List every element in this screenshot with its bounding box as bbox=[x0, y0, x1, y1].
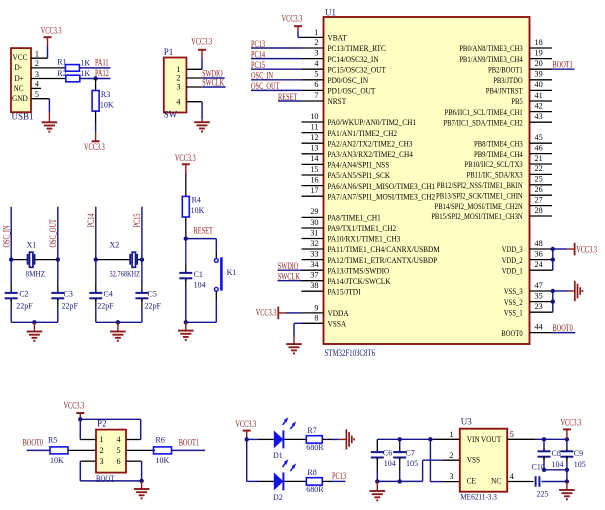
junction bbox=[565, 437, 569, 441]
connector USB1 bbox=[11, 48, 31, 112]
svg-text:VSS: VSS bbox=[467, 455, 481, 464]
svg-text:BOOT0: BOOT0 bbox=[23, 438, 44, 448]
svg-text:18: 18 bbox=[535, 38, 543, 47]
U1 pin 20 PB2/BOOT1 / node BOOT1 bbox=[530, 68, 553, 70]
svg-text:D1: D1 bbox=[273, 451, 283, 460]
svg-text:R5: R5 bbox=[48, 435, 57, 444]
svg-text:R8: R8 bbox=[307, 468, 316, 477]
svg-text:PA3/AN3/RX2/TIME2_CH4: PA3/AN3/RX2/TIME2_CH4 bbox=[328, 150, 414, 159]
svg-text:U3: U3 bbox=[461, 417, 472, 427]
svg-text:VCC: VCC bbox=[13, 53, 28, 62]
svg-text:PB7/IIC1_SDA/TIME4_CH2: PB7/IIC1_SDA/TIME4_CH2 bbox=[443, 118, 522, 127]
junction bbox=[428, 437, 432, 441]
svg-text:PC13: PC13 bbox=[332, 471, 346, 481]
P2 pin 2 wire bbox=[68, 449, 96, 451]
resistor R3 bbox=[95, 79, 97, 91]
svg-text:PB5: PB5 bbox=[511, 97, 522, 106]
ground (regulator input) bbox=[376, 481, 378, 490]
svg-text:23: 23 bbox=[535, 302, 543, 311]
svg-text:VBAT: VBAT bbox=[328, 34, 347, 43]
junction bbox=[398, 437, 402, 441]
wire (VIN-CE tie) bbox=[429, 439, 431, 481]
svg-text:42: 42 bbox=[535, 101, 543, 110]
svg-text:PA6/AN6/SPI1_MISO/TIME3_CH1: PA6/AN6/SPI1_MISO/TIME3_CH1 bbox=[328, 182, 436, 191]
LED D2 bbox=[274, 472, 284, 490]
svg-text:13: 13 bbox=[310, 144, 318, 153]
ground (reset) bbox=[185, 322, 187, 330]
svg-text:OSC_IN: OSC_IN bbox=[1, 225, 11, 247]
svg-text:14: 14 bbox=[310, 154, 318, 163]
U1 pin 22 PB11/IIC_SDA/RX3 bbox=[530, 173, 553, 175]
U1 pin 11 PA1/AN1/TIME2_CH2 bbox=[302, 132, 324, 134]
svg-text:VSS_2: VSS_2 bbox=[504, 298, 523, 307]
wire bbox=[201, 59, 203, 70]
svg-text:22pF: 22pF bbox=[97, 302, 114, 311]
svg-text:1: 1 bbox=[176, 65, 180, 74]
svg-text:VDD_1: VDD_1 bbox=[502, 266, 523, 275]
ground (regulator output) bbox=[566, 482, 568, 490]
svg-text:1: 1 bbox=[449, 430, 453, 439]
svg-text:PB1/AN9/TIME3_CH4: PB1/AN9/TIME3_CH4 bbox=[459, 55, 523, 64]
svg-text:16: 16 bbox=[310, 175, 318, 184]
svg-text:8: 8 bbox=[314, 314, 318, 323]
svg-text:R3: R3 bbox=[101, 90, 110, 99]
svg-text:RESET: RESET bbox=[194, 225, 214, 235]
svg-text:PB4/JNTRST: PB4/JNTRST bbox=[486, 87, 523, 96]
svg-text:40: 40 bbox=[535, 80, 543, 89]
svg-text:5: 5 bbox=[510, 430, 514, 439]
svg-text:43: 43 bbox=[535, 112, 543, 121]
junction bbox=[245, 437, 249, 441]
svg-text:12: 12 bbox=[310, 133, 318, 142]
svg-text:C1: C1 bbox=[194, 270, 203, 279]
ground (USB) bbox=[42, 121, 58, 123]
U1 pin 39 PB3/JTDO bbox=[530, 79, 553, 81]
svg-text:1K: 1K bbox=[80, 69, 90, 78]
svg-text:VSS_3: VSS_3 bbox=[504, 287, 523, 296]
svg-text:R6: R6 bbox=[156, 435, 165, 444]
capacitor C3 bbox=[57, 283, 59, 293]
svg-text:PA14/JTCK/SWCLK: PA14/JTCK/SWCLK bbox=[328, 277, 391, 286]
junction bbox=[184, 236, 188, 240]
svg-text:PB9/TIME4_CH4: PB9/TIME4_CH4 bbox=[474, 150, 523, 159]
wire bbox=[285, 438, 307, 440]
svg-text:NC: NC bbox=[14, 84, 25, 93]
wire (VOUT) bbox=[507, 438, 535, 440]
svg-text:PC15: PC15 bbox=[132, 213, 142, 227]
svg-text:22pF: 22pF bbox=[16, 302, 33, 311]
svg-text:C7: C7 bbox=[406, 449, 415, 458]
U1 pin 30 PA9/TX1/TIME1_CH2 bbox=[302, 227, 324, 229]
svg-text:11: 11 bbox=[311, 122, 319, 131]
U1 pin 13 PA3/AN3/RX2/TIME2_CH4 bbox=[302, 153, 324, 155]
svg-text:2: 2 bbox=[314, 38, 318, 47]
svg-text:5: 5 bbox=[35, 90, 39, 99]
svg-text:BOOT1: BOOT1 bbox=[553, 59, 573, 69]
capacitor C1 bbox=[185, 239, 187, 265]
svg-text:PB10/IIC2_SCL/TX3: PB10/IIC2_SCL/TX3 bbox=[464, 160, 522, 169]
svg-text:4: 4 bbox=[314, 59, 318, 68]
wire bbox=[201, 102, 203, 120]
svg-text:46: 46 bbox=[535, 143, 543, 152]
svg-text:3: 3 bbox=[449, 472, 453, 481]
svg-text:D+: D+ bbox=[15, 74, 25, 83]
svg-text:PA4/AN4/SPI1_NSS: PA4/AN4/SPI1_NSS bbox=[328, 161, 390, 170]
P2 pin 5 wire bbox=[126, 449, 155, 451]
svg-text:STM32F103C8T6: STM32F103C8T6 bbox=[325, 348, 376, 358]
svg-text:35: 35 bbox=[535, 291, 543, 300]
svg-text:17: 17 bbox=[310, 186, 318, 195]
wire (VIN rail) bbox=[377, 438, 434, 440]
svg-text:36: 36 bbox=[535, 249, 543, 258]
svg-text:K1: K1 bbox=[227, 268, 237, 277]
svg-text:USB1: USB1 bbox=[12, 112, 34, 122]
svg-text:6: 6 bbox=[117, 457, 121, 466]
svg-text:GND: GND bbox=[12, 94, 28, 103]
svg-text:BOOT0: BOOT0 bbox=[553, 323, 574, 333]
svg-text:PB15/SPI2_MOSI/TIME1_CH3N: PB15/SPI2_MOSI/TIME1_CH3N bbox=[431, 212, 523, 221]
svg-text:3: 3 bbox=[314, 48, 318, 57]
svg-text:PA1/AN1/TIME2_CH2: PA1/AN1/TIME2_CH2 bbox=[328, 129, 398, 138]
svg-text:OSC_OUT: OSC_OUT bbox=[48, 219, 58, 248]
svg-text:4: 4 bbox=[176, 97, 180, 106]
svg-text:X2: X2 bbox=[110, 240, 120, 249]
svg-text:105: 105 bbox=[574, 460, 586, 469]
svg-text:1: 1 bbox=[100, 435, 104, 444]
svg-text:C2: C2 bbox=[19, 289, 28, 298]
U1 pin 46 PB9/TIME4_CH4 bbox=[530, 153, 553, 155]
svg-text:4: 4 bbox=[510, 472, 514, 481]
svg-text:NC: NC bbox=[491, 476, 502, 485]
svg-text:PB8/TIME4_CH3: PB8/TIME4_CH3 bbox=[474, 139, 523, 148]
capacitor C2 bbox=[10, 283, 12, 293]
svg-text:2: 2 bbox=[100, 446, 104, 455]
svg-text:30: 30 bbox=[310, 218, 318, 227]
svg-text:680R: 680R bbox=[306, 443, 324, 452]
svg-text:VOUT: VOUT bbox=[481, 435, 501, 444]
junction bbox=[542, 468, 546, 472]
svg-text:VCC3.3: VCC3.3 bbox=[256, 308, 277, 318]
svg-text:PA8/TIME1_CH1: PA8/TIME1_CH1 bbox=[328, 214, 381, 223]
svg-text:PD0/OSC_IN: PD0/OSC_IN bbox=[328, 76, 369, 85]
svg-text:10K: 10K bbox=[191, 206, 205, 215]
svg-text:38: 38 bbox=[310, 281, 318, 290]
svg-text:VCC3.3: VCC3.3 bbox=[175, 153, 196, 163]
svg-text:R7: R7 bbox=[307, 426, 316, 435]
svg-text:PA12: PA12 bbox=[95, 68, 109, 78]
U1 pin 42 PB6/IIC1_SCL/TIME4_CH1 bbox=[530, 111, 553, 113]
svg-text:PA15/JTDI: PA15/JTDI bbox=[328, 287, 361, 296]
U1 pin 25 PB12/SPI2_NSS/TIME1_BKIN bbox=[530, 184, 553, 186]
svg-text:P2: P2 bbox=[97, 418, 107, 428]
U1 VSS pins 47/35/23 + ground (sideways) bbox=[530, 290, 553, 292]
svg-text:33: 33 bbox=[310, 249, 318, 258]
P2 pin 3 bbox=[80, 460, 96, 462]
svg-text:19: 19 bbox=[535, 48, 543, 57]
wire bbox=[322, 480, 331, 482]
svg-text:C6: C6 bbox=[383, 449, 392, 458]
U1 pin 45 PB8/TIME4_CH3 bbox=[530, 142, 553, 144]
P2 pin 4 bbox=[126, 439, 141, 441]
ground (D1, sideways) bbox=[345, 429, 347, 449]
svg-text:PA9/TX1/TIME1_CH2: PA9/TX1/TIME1_CH2 bbox=[328, 224, 397, 233]
svg-text:VIN: VIN bbox=[467, 435, 480, 444]
svg-text:2: 2 bbox=[176, 74, 180, 83]
svg-text:10: 10 bbox=[310, 112, 318, 121]
svg-text:VCC3.3: VCC3.3 bbox=[576, 244, 597, 254]
U1 VDD pins 48/36/24 + power VCC3.3 bbox=[530, 248, 553, 250]
svg-text:32: 32 bbox=[310, 239, 318, 248]
U1 pin 18 PB0/AN8/TIME3_CH3 bbox=[530, 47, 553, 49]
svg-text:NRST: NRST bbox=[328, 97, 347, 106]
capacitor C5 bbox=[141, 283, 143, 293]
svg-text:3: 3 bbox=[100, 457, 104, 466]
junction bbox=[139, 479, 143, 483]
wire bbox=[185, 288, 187, 322]
junction bbox=[56, 257, 60, 261]
svg-text:VCC3.3: VCC3.3 bbox=[282, 14, 303, 24]
junction bbox=[184, 320, 188, 324]
capacitor C8 bbox=[543, 439, 545, 446]
svg-text:41: 41 bbox=[535, 91, 543, 100]
wire bbox=[247, 480, 258, 482]
junction bbox=[78, 417, 82, 421]
junction bbox=[94, 257, 98, 261]
svg-text:PA13/JTMS/SWDIO: PA13/JTMS/SWDIO bbox=[328, 266, 390, 275]
svg-text:PB2/BOOT1: PB2/BOOT1 bbox=[488, 65, 523, 74]
svg-text:VDDA: VDDA bbox=[328, 309, 349, 318]
svg-text:3: 3 bbox=[176, 83, 180, 92]
svg-text:27: 27 bbox=[535, 195, 543, 204]
wire bbox=[322, 438, 331, 440]
power symbol VCC3.3 (pull-up, bar down) bbox=[95, 132, 97, 142]
ground (crystal 2) bbox=[117, 322, 119, 331]
svg-text:PB11/IIC_SDA/RX3: PB11/IIC_SDA/RX3 bbox=[467, 171, 523, 180]
svg-text:VCC3.3: VCC3.3 bbox=[235, 419, 256, 429]
capacitor C9 bbox=[566, 439, 568, 446]
U1 pin 21 PB10/IIC2_SCL/TX3 bbox=[530, 163, 553, 165]
svg-text:BOOT1: BOOT1 bbox=[179, 438, 199, 448]
svg-text:D-: D- bbox=[15, 63, 23, 72]
svg-text:45: 45 bbox=[535, 133, 543, 142]
svg-text:VCC3.3: VCC3.3 bbox=[64, 401, 85, 411]
wire bbox=[566, 470, 568, 482]
ground (crystal 1) bbox=[33, 322, 35, 331]
svg-text:C4: C4 bbox=[104, 289, 113, 298]
svg-text:2: 2 bbox=[449, 451, 453, 460]
svg-text:VSSA: VSSA bbox=[328, 320, 347, 329]
wire (VSS jog) bbox=[423, 459, 443, 461]
svg-text:PC15/OSC32_OUT: PC15/OSC32_OUT bbox=[328, 65, 386, 74]
wire (bottom rail) bbox=[79, 461, 81, 481]
svg-text:22: 22 bbox=[535, 164, 543, 173]
wire bbox=[10, 308, 12, 322]
pin 4 bbox=[186, 101, 202, 103]
svg-text:VCC3.3: VCC3.3 bbox=[191, 36, 212, 46]
svg-text:104: 104 bbox=[194, 281, 206, 290]
U1 pin 19 PB1/AN9/TIME3_CH4 bbox=[530, 58, 553, 60]
wire (top rail) bbox=[80, 418, 140, 420]
ground (P2) bbox=[141, 481, 143, 489]
svg-text:225: 225 bbox=[537, 489, 549, 498]
svg-text:PC13/TIMER_RTC: PC13/TIMER_RTC bbox=[328, 44, 387, 53]
wire bbox=[95, 308, 97, 322]
svg-text:X1: X1 bbox=[27, 240, 37, 249]
svg-text:PA2/AN2/TX2/TIME2_CH3: PA2/AN2/TX2/TIME2_CH3 bbox=[328, 139, 413, 148]
svg-text:20: 20 bbox=[535, 59, 543, 68]
pin 2 / node SWDIO bbox=[186, 77, 202, 79]
wire bbox=[247, 438, 258, 440]
svg-text:5: 5 bbox=[314, 70, 318, 79]
junction bbox=[565, 479, 569, 483]
svg-text:44: 44 bbox=[535, 322, 543, 331]
junction bbox=[375, 479, 379, 483]
svg-text:R4: R4 bbox=[192, 196, 201, 205]
svg-text:PC14: PC14 bbox=[86, 213, 96, 227]
svg-text:ME6211-3.3: ME6211-3.3 bbox=[460, 493, 497, 502]
wire bbox=[47, 47, 49, 59]
U1 pin 14 PA4/AN4/SPI1_NSS bbox=[302, 163, 324, 165]
svg-text:9: 9 bbox=[314, 303, 318, 312]
U1 pin 29 PA8/TIME1_CH1 bbox=[302, 216, 324, 218]
junction bbox=[140, 257, 144, 261]
svg-text:37: 37 bbox=[310, 271, 318, 280]
svg-text:29: 29 bbox=[310, 207, 318, 216]
svg-text:47: 47 bbox=[535, 281, 543, 290]
wire bbox=[31, 98, 49, 100]
svg-text:PD1/OSC_OUT: PD1/OSC_OUT bbox=[328, 87, 376, 96]
svg-text:PB12/SPI2_NSS/TIME1_BKIN: PB12/SPI2_NSS/TIME1_BKIN bbox=[437, 181, 523, 190]
svg-text:VDD_3: VDD_3 bbox=[502, 245, 523, 254]
svg-text:104: 104 bbox=[552, 460, 564, 469]
junction bbox=[9, 257, 13, 261]
svg-text:10K: 10K bbox=[50, 456, 64, 465]
svg-text:5: 5 bbox=[117, 446, 121, 455]
svg-text:CE: CE bbox=[467, 476, 476, 485]
wire bbox=[95, 111, 97, 124]
U1 pin 31 PA10/RX1/TIME1_CH3 bbox=[302, 238, 324, 240]
U1 pin 12 PA2/AN2/TX2/TIME2_CH3 bbox=[302, 142, 324, 144]
svg-text:VDD_2: VDD_2 bbox=[502, 256, 523, 265]
capacitor C6 bbox=[376, 439, 378, 452]
svg-text:22pF: 22pF bbox=[145, 302, 162, 311]
U1 pin 10 PA0/WKUP/AN0/TIM2_CH1 bbox=[302, 121, 324, 123]
U1 pin 17 PA7/AN7/SPI1_MOSI/TIME3_CH2 bbox=[302, 195, 324, 197]
svg-text:C8: C8 bbox=[552, 449, 561, 458]
svg-text:VSS_1: VSS_1 bbox=[504, 308, 523, 317]
junction bbox=[565, 468, 569, 472]
svg-text:39: 39 bbox=[535, 70, 543, 79]
P2 pin 6 bbox=[126, 460, 142, 462]
svg-text:105: 105 bbox=[406, 459, 418, 468]
U1 pin 16 PA6/AN6/SPI1_MISO/TIME3_CH1 bbox=[302, 185, 324, 187]
svg-text:SW: SW bbox=[164, 109, 178, 119]
svg-text:6: 6 bbox=[314, 80, 318, 89]
svg-text:1K: 1K bbox=[80, 58, 90, 67]
svg-text:PA10/RX1/TIME1_CH3: PA10/RX1/TIME1_CH3 bbox=[328, 235, 401, 244]
LED D1 bbox=[274, 430, 284, 448]
pushbutton K1 bbox=[214, 259, 218, 263]
svg-text:C10: C10 bbox=[532, 463, 545, 472]
U1 pin 41 PB5 bbox=[530, 100, 553, 102]
svg-text:PB13/SPI2_SCK/TIME1_CHIN: PB13/SPI2_SCK/TIME1_CHIN bbox=[436, 191, 523, 200]
capacitor C4 bbox=[95, 283, 97, 293]
U1 pin 28 PB15/SPI2_MOSI/TIME1_CH3N bbox=[530, 215, 553, 217]
svg-text:15: 15 bbox=[310, 165, 318, 174]
U1 pin 26 PB13/SPI2_SCK/TIME1_CHIN bbox=[530, 194, 553, 196]
wire bbox=[186, 238, 217, 240]
svg-text:680R: 680R bbox=[306, 485, 324, 494]
U1 pin 33 PA12/TIME1_ETR/CANTX/USBDP bbox=[302, 259, 324, 261]
svg-text:4: 4 bbox=[35, 80, 39, 89]
U1 pin 15 PA5/AN5/SPI1_SCK bbox=[302, 174, 324, 176]
wire bbox=[246, 439, 248, 481]
svg-text:34: 34 bbox=[310, 260, 318, 269]
svg-text:PA7/AN7/SPI1_MOSI/TIME3_CH2: PA7/AN7/SPI1_MOSI/TIME3_CH2 bbox=[328, 192, 436, 201]
U1 pin 43 PB7/IIC1_SDA/TIME4_CH2 bbox=[530, 121, 553, 123]
svg-text:22pF: 22pF bbox=[62, 302, 79, 311]
wire bbox=[215, 291, 217, 300]
svg-text:2: 2 bbox=[35, 59, 39, 68]
P2 pin 1 bbox=[80, 439, 96, 441]
wire bbox=[285, 480, 307, 482]
wire bbox=[544, 469, 567, 471]
U1 pin 38 PA15/JTDI bbox=[302, 290, 324, 292]
wire bbox=[185, 174, 187, 196]
resistor R4 bbox=[182, 196, 189, 217]
svg-text:3: 3 bbox=[35, 70, 39, 79]
wire bbox=[185, 217, 187, 239]
svg-text:PB0/AN8/TIME3_CH3: PB0/AN8/TIME3_CH3 bbox=[459, 44, 523, 53]
wire (gnd rail) bbox=[377, 480, 422, 482]
svg-text:PA11/TIME1_CH4/CANRX/USBDM: PA11/TIME1_CH4/CANRX/USBDM bbox=[328, 245, 441, 254]
wire (bottom rail) bbox=[11, 321, 58, 323]
svg-text:VCC3.3: VCC3.3 bbox=[41, 26, 62, 36]
svg-text:D2: D2 bbox=[273, 493, 283, 502]
svg-text:10K: 10K bbox=[100, 101, 114, 110]
svg-text:32.768KHZ: 32.768KHZ bbox=[110, 270, 141, 279]
wire bbox=[141, 308, 143, 322]
svg-text:8MHZ: 8MHZ bbox=[26, 270, 46, 279]
wire (bottom rail) bbox=[96, 321, 142, 323]
svg-text:25: 25 bbox=[535, 175, 543, 184]
svg-text:48: 48 bbox=[535, 239, 543, 248]
svg-text:P1: P1 bbox=[164, 47, 174, 57]
junction bbox=[93, 76, 97, 80]
svg-text:C5: C5 bbox=[148, 289, 157, 298]
svg-text:1: 1 bbox=[314, 28, 318, 37]
U1 pin 40 PB4/JNTRST bbox=[530, 89, 553, 91]
junction bbox=[398, 479, 402, 483]
svg-text:U1: U1 bbox=[325, 8, 336, 18]
svg-text:VCC3.3: VCC3.3 bbox=[561, 418, 582, 428]
svg-text:PA11: PA11 bbox=[95, 57, 109, 67]
U1 pin 32 PA11/TIME1_CH4/CANRX/USBDM bbox=[302, 248, 324, 250]
svg-text:VCC3.3: VCC3.3 bbox=[84, 142, 105, 152]
wire (bottom) bbox=[186, 321, 217, 323]
junction bbox=[32, 320, 36, 324]
svg-text:21: 21 bbox=[535, 154, 543, 163]
svg-text:BOOT0: BOOT0 bbox=[501, 329, 522, 338]
U1 pin 8 VSSA + ground bbox=[302, 322, 324, 324]
junction bbox=[116, 320, 120, 324]
svg-text:1: 1 bbox=[35, 50, 39, 59]
svg-text:C3: C3 bbox=[64, 289, 73, 298]
svg-text:PA5/AN5/SPI1_SCK: PA5/AN5/SPI1_SCK bbox=[328, 171, 391, 180]
svg-text:PC14/OSC32_IN: PC14/OSC32_IN bbox=[328, 55, 379, 64]
U1 pin 44 BOOT0 / node BOOT0 bbox=[530, 332, 553, 334]
svg-text:SWCLK: SWCLK bbox=[202, 78, 224, 88]
